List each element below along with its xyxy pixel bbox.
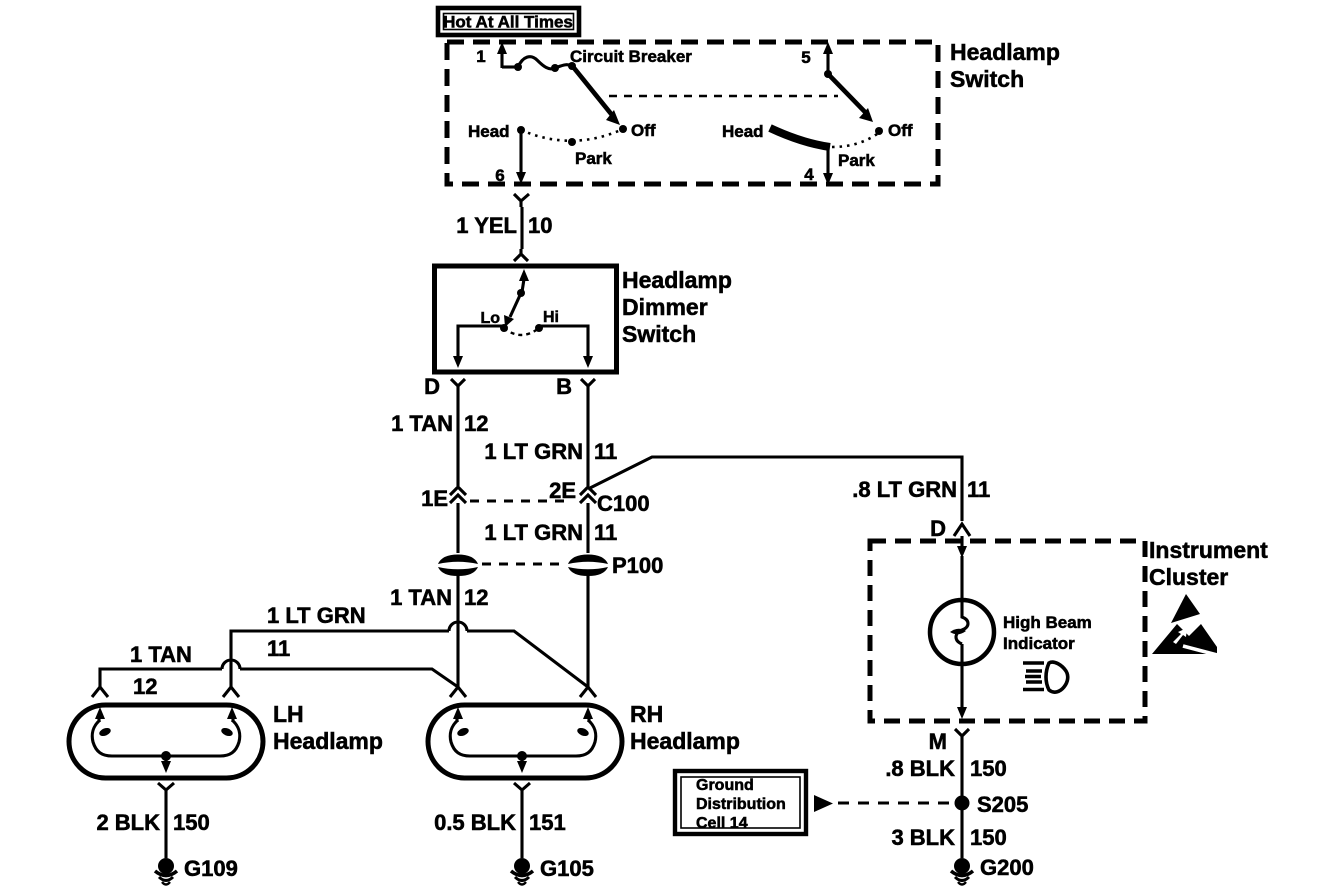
svg-text:Cell 14: Cell 14 [696, 815, 748, 832]
Hi contact [535, 309, 559, 332]
svg-text:12: 12 [464, 585, 488, 610]
svg-text:1 TAN: 1 TAN [130, 642, 192, 667]
svg-text:Park: Park [575, 149, 612, 168]
svg-text:Cluster: Cluster [1149, 564, 1228, 590]
svg-text:Indicator: Indicator [1003, 634, 1075, 653]
svg-text:1 TAN: 1 TAN [390, 585, 452, 610]
fuse label box Hot At All Times [438, 8, 579, 35]
wire 1 LT GRN 11 crossover to both headlamps [231, 603, 588, 687]
wire 1 TAN 12 crossover to both headlamps [100, 642, 458, 699]
pin 5 arrow up [823, 42, 833, 78]
headlamp switch label [950, 39, 1060, 92]
svg-text:G109: G109 [184, 856, 238, 881]
ground distribution arrow [814, 795, 833, 812]
wire 1 LT GRN 11 (2E to P100) [484, 503, 617, 553]
RH headlamp ground connector Y [514, 783, 530, 797]
dimmer output B wire with arrow [539, 326, 593, 368]
grommet P100 right [568, 555, 608, 577]
svg-text:.8 BLK: .8 BLK [885, 756, 955, 781]
right wiper arrow to Off [830, 76, 873, 122]
svg-text:G200: G200 [980, 855, 1034, 880]
svg-text:6: 6 [495, 166, 504, 185]
connector 1E double chevron [421, 486, 466, 511]
svg-text:11: 11 [967, 477, 990, 502]
splice S205 [955, 792, 1029, 858]
headlamp switch internal divider (dashed) [609, 95, 838, 98]
wire .8 BLK 150 [885, 743, 1006, 796]
svg-text:1E: 1E [421, 486, 448, 511]
wire 2 BLK 150 [96, 797, 209, 858]
svg-text:Headlamp: Headlamp [630, 728, 740, 754]
Off contact right [875, 127, 883, 135]
svg-text:0.5 BLK: 0.5 BLK [434, 810, 516, 835]
svg-text:2E: 2E [549, 478, 576, 503]
svg-text:D: D [930, 516, 946, 541]
Lo contact [480, 310, 508, 332]
pin M label and Y connector [929, 729, 969, 754]
svg-text:Head: Head [722, 122, 764, 141]
svg-text:11: 11 [594, 520, 617, 545]
svg-text:.8 LT GRN: .8 LT GRN [852, 477, 957, 502]
grommet P100 left [438, 555, 478, 577]
svg-text:Switch: Switch [950, 66, 1024, 92]
high beam indicator label [1003, 613, 1092, 653]
LH headlamp label [273, 701, 383, 754]
svg-text:1 LT GRN: 1 LT GRN [267, 603, 366, 628]
svg-text:Instrument: Instrument [1149, 537, 1268, 563]
svg-text:D: D [424, 374, 440, 399]
svg-text:5: 5 [801, 48, 810, 67]
dashed link to S205 [838, 802, 950, 805]
circuit breaker symbol [514, 57, 576, 72]
branch wire .8 LT GRN 11 to instrument cluster [588, 457, 990, 521]
headlamp switch box (dashed) [447, 42, 938, 184]
high beam icon [1023, 662, 1068, 692]
svg-text:G105: G105 [540, 856, 594, 881]
LH headlamp body [69, 705, 263, 778]
svg-text:11: 11 [594, 439, 617, 464]
headlamp dimmer switch label [622, 267, 732, 347]
dimmer wiper arrow to Lo [504, 293, 521, 327]
Park dotted arc right [832, 134, 877, 170]
P100 dashed link and label [482, 553, 663, 578]
ground G200 [951, 855, 1034, 885]
right wiper in Head position (thick arc) [770, 128, 830, 147]
svg-text:Headlamp: Headlamp [950, 39, 1060, 65]
C100 connector dashed link and label [470, 491, 650, 516]
wire 1 YEL 10 [456, 207, 552, 249]
svg-text:151: 151 [529, 810, 566, 835]
pin D label and Y connector [424, 374, 465, 399]
wire 1 TAN 12 (D to 1E) [391, 392, 488, 486]
ground distribution reference box [675, 771, 806, 834]
svg-text:1 LT GRN: 1 LT GRN [484, 520, 583, 545]
RH headlamp label [630, 701, 740, 754]
ground G105 [511, 856, 594, 885]
wire 3 BLK 150 [891, 825, 1006, 850]
Off contact left [619, 125, 627, 133]
wire 1 LT GRN (P100 down to RH headlamp) [586, 575, 589, 687]
pin D of instrument cluster [930, 516, 970, 541]
dimmer input arrow [517, 269, 529, 297]
LH headlamp pin chevrons [92, 687, 239, 697]
wire 1 LT GRN 11 (B to 2E) [484, 392, 617, 486]
svg-text:C100: C100 [597, 491, 650, 516]
svg-text:S205: S205 [977, 792, 1028, 817]
instrument cluster label [1149, 537, 1268, 590]
pin 4 wire with arrow [804, 148, 833, 185]
pin 6 wire with arrow [495, 130, 526, 185]
wire segment 1E to P100 [456, 503, 459, 553]
svg-text:12: 12 [133, 674, 157, 699]
svg-text:2 BLK: 2 BLK [96, 810, 160, 835]
svg-text:Off: Off [888, 121, 913, 140]
svg-text:Park: Park [838, 151, 875, 170]
svg-text:P100: P100 [612, 553, 663, 578]
dimmer output D wire with arrow [453, 326, 504, 368]
pin 1 arrow up [497, 42, 517, 68]
svg-text:1: 1 [476, 47, 485, 66]
dashed arc between Lo and Hi [504, 328, 539, 335]
connector Y at pin 6 output [514, 194, 529, 207]
svg-text:4: 4 [804, 165, 814, 184]
connector inverted-Y at dimmer input [514, 249, 528, 261]
LH headlamp ground connector Y [158, 783, 174, 797]
wire 0.5 BLK 151 [434, 797, 566, 858]
RH headlamp pin chevrons [450, 687, 596, 697]
svg-text:Headlamp: Headlamp [273, 728, 383, 754]
svg-text:B: B [556, 374, 572, 399]
svg-text:Dimmer: Dimmer [622, 294, 708, 320]
svg-text:150: 150 [970, 756, 1007, 781]
svg-text:1 TAN: 1 TAN [391, 411, 453, 436]
svg-text:M: M [929, 729, 947, 754]
cluster output wire and arrow [957, 664, 967, 719]
svg-text:150: 150 [173, 810, 210, 835]
svg-text:Hot At All Times: Hot At All Times [443, 13, 573, 32]
svg-text:Hi: Hi [543, 309, 559, 326]
connector 2E double chevron [549, 478, 596, 503]
svg-text:3 BLK: 3 BLK [891, 825, 955, 850]
svg-text:12: 12 [464, 411, 488, 436]
svg-text:Switch: Switch [622, 321, 696, 347]
svg-text:Distribution: Distribution [696, 796, 786, 813]
cluster input arrow [957, 536, 967, 600]
svg-text:High Beam: High Beam [1003, 613, 1092, 632]
ground G109 [155, 856, 238, 885]
svg-text:11: 11 [267, 636, 290, 661]
left wiper arrow to Off [574, 68, 620, 125]
svg-text:Headlamp: Headlamp [622, 267, 732, 293]
svg-text:Head: Head [468, 122, 510, 141]
svg-text:LH: LH [273, 701, 304, 727]
svg-text:Ground: Ground [696, 777, 754, 794]
RH headlamp body [428, 705, 622, 778]
Park contact left (dotted arc) [521, 129, 623, 168]
svg-text:Off: Off [631, 121, 656, 140]
svg-text:RH: RH [630, 701, 663, 727]
svg-text:1 YEL: 1 YEL [456, 213, 517, 238]
svg-text:Circuit Breaker: Circuit Breaker [570, 47, 692, 66]
high beam indicator bulb [930, 600, 994, 664]
pin B label and Y connector [556, 374, 595, 399]
wire 1 TAN 12 (P100 to RH headlamp) [390, 575, 488, 687]
svg-text:150: 150 [970, 825, 1007, 850]
svg-text:10: 10 [528, 213, 552, 238]
svg-text:1 LT GRN: 1 LT GRN [484, 439, 583, 464]
instrument cluster box (dashed) [870, 541, 1145, 721]
ESD sensitivity symbol [1152, 594, 1221, 656]
headlamp dimmer switch box [435, 266, 617, 372]
